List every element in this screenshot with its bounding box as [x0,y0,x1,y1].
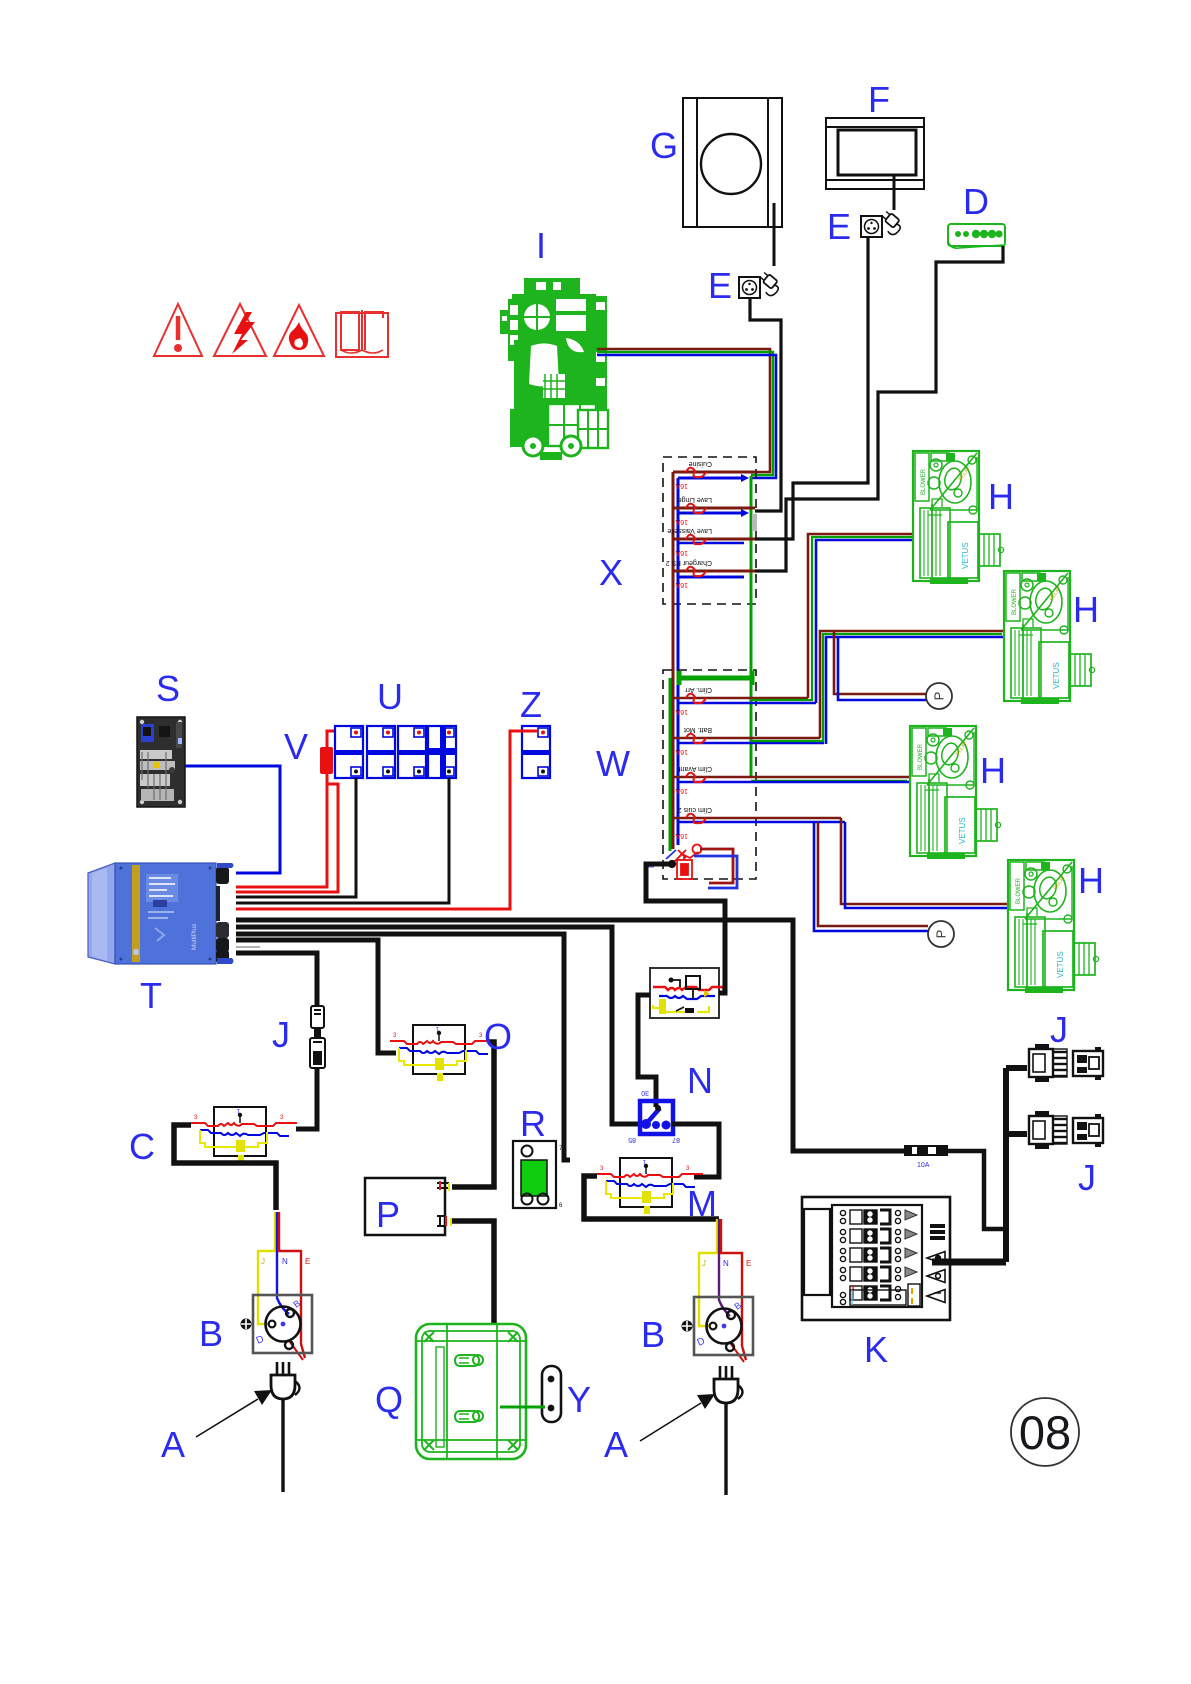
svg-text:H: H [1073,589,1099,630]
red diagonal through socket [290,1342,303,1360]
wire P bottom to battery Q [452,1221,494,1325]
T output bus black 1 [236,920,904,1151]
wire W pair1 up to H1: blue [816,540,913,703]
arrow A1 [196,1390,272,1437]
wire J connector down to C [296,1068,317,1129]
wire bundle from I: blue [597,355,776,478]
X vertical feeder blue [677,478,680,845]
battery Z [522,726,550,778]
W green bus bar [679,671,752,685]
svg-text:E: E [827,206,851,247]
svg-text:A: A [604,1424,628,1465]
svg-text:Clim Avant: Clim Avant [679,765,712,772]
branch to P2: blue [814,822,928,931]
svg-text:Q: Q [375,1379,403,1420]
svg-text:U: U [377,676,403,717]
svg-text:16A: 16A [675,518,688,525]
T output bus black 3 to R [236,934,570,1160]
svg-text:16A: 16A [675,708,688,715]
svg-text:I: I [536,225,546,266]
wires to socket B2: yellow [699,1219,717,1326]
svg-text:E: E [746,1259,751,1268]
svg-text:Lave Linge: Lave Linge [678,496,712,503]
junction box X dashed [663,457,756,604]
svg-text:S: S [156,668,180,709]
W relay output loop blue [694,856,737,888]
svg-text:J: J [1078,1157,1096,1198]
connector J right bottom [1029,1111,1103,1149]
svg-text:Z: Z [520,684,542,725]
wire socket E to X box pair2 [750,298,781,511]
wire Q to Y green [500,1406,545,1409]
svg-text:H: H [1078,860,1104,901]
LED controller D [948,224,1005,248]
stub to connector J top [1006,1065,1027,1071]
wire W pair2 up to H2: blue [826,637,1004,744]
svg-text:87: 87 [672,1136,680,1143]
wire W pair4 to H4: blue [845,822,1008,908]
fuse V [320,731,335,774]
svg-text:H: H [988,476,1014,517]
T output bus black 2 to relay N [236,927,640,1124]
wire D to X box pair4 [755,246,1003,571]
X green distribution wire [750,476,753,777]
svg-text:J: J [261,1257,265,1266]
W green left feeder [669,678,672,851]
indicator R [513,1141,563,1209]
branch to P2: dark red [818,822,928,926]
svg-text:K: K [864,1329,888,1370]
wire C left to junction [174,1125,276,1210]
wire battery U negative to T black 1 [236,778,356,897]
wire battery U4 negative to T black 2 [236,778,449,903]
svg-text:N: N [723,1259,729,1268]
wire V to inverter T red 2 [236,784,338,892]
svg-text:N: N [282,1257,288,1266]
T output bus black 5 to J inline connector [236,953,317,1006]
socket E with plug (for G) [739,271,782,298]
connector Y [542,1366,561,1422]
svg-text:C: C [129,1126,155,1167]
socket B2 [682,1297,754,1355]
fuse panel K [802,1197,950,1320]
wire W pair2 up to H2: green [751,634,1002,741]
wire W pair1 up to H1: dark red [808,534,913,698]
stub to connector J bottom [1006,1131,1027,1137]
W circuit 4 pair (Clim cuis 2) [673,806,845,839]
svg-text:J: J [272,1014,290,1055]
wire N to M [672,1124,719,1177]
svg-text:H: H [980,750,1006,791]
svg-text:A: A [161,1424,185,1465]
W circuit 1 pair (Clim Arr) [673,686,816,715]
wires junction to socket B1: yellow [258,1212,275,1324]
svg-text:P: P [376,1194,400,1235]
wire battery Z to T red [236,731,538,909]
thermostat C [191,1107,297,1163]
X circuit 3 pair (Lave Vaisselle) [667,527,755,556]
wire G to socket E [773,203,776,266]
svg-text:Batt. Mot: Batt. Mot [684,726,712,733]
warning triangle fire [274,305,324,356]
wire W pair4 to H4: dark red [841,818,1008,904]
svg-text:16A: 16A [675,549,688,556]
svg-text:D: D [963,181,989,222]
arrow A2 [640,1394,715,1441]
svg-text:Clim cuis 2: Clim cuis 2 [678,806,712,813]
svg-text:16A: 16A [675,482,688,489]
wires junction to socket B1: red [279,1212,305,1358]
wire F to socket E [893,175,896,210]
svg-text:Clim. Arr: Clim. Arr [685,686,713,693]
connector J right top [1029,1044,1103,1082]
svg-text:Lave Vaisselle: Lave Vaisselle [667,527,712,534]
wire bus to K [932,1259,1006,1266]
junction box W dashed [663,670,756,879]
red diagonal through socket B2 [731,1344,744,1362]
manual book icon [336,310,388,357]
svg-text:08: 08 [1019,1406,1071,1459]
svg-text:Y: Y [567,1379,591,1420]
wire V to inverter T red 1 [236,774,327,887]
control board S [137,717,185,807]
svg-text:G: G [650,125,678,166]
svg-text:16A: 16A [675,832,688,839]
battery bank U [335,726,363,778]
page number 08 [1011,1398,1079,1466]
wire W pair2 up to H2: dark red [820,631,1004,738]
warning triangle electric [214,304,266,356]
svg-text:16A: 16A [675,787,688,794]
thermostat M [597,1158,703,1214]
X vertical feeder dark red [672,472,675,849]
switch N [628,1089,680,1143]
svg-text:B: B [199,1313,223,1354]
W relay output loop dark red [700,849,733,883]
auxiliary battery Q [416,1324,526,1459]
fan unit H4 [1008,860,1099,993]
svg-text:V: V [284,726,308,767]
plug A1 [271,1362,300,1492]
terminal P1 [926,683,952,709]
wires junction to socket B1: blue [277,1212,289,1314]
terminal P2 [928,921,954,947]
branch to P1: dark red [834,631,926,694]
inline connector J (left) [310,1006,325,1068]
inline fuse on AC feed [904,1145,948,1169]
svg-text:MultiPlus: MultiPlus [191,923,198,950]
wires to socket B2: purple [719,1219,730,1316]
wire socket E(F) to X box pair3 [755,237,868,539]
svg-text:Cuisine: Cuisine [689,460,712,467]
svg-text:J: J [1050,1009,1068,1050]
wire O right to P top terminal [452,1042,494,1187]
wire relay to switch N [638,995,656,1107]
socket B1 [241,1295,313,1353]
appliance F microwave [826,118,924,189]
fold mark [752,514,757,531]
svg-text:16A: 16A [675,581,688,588]
T remote wire gray [236,946,260,948]
J feeder bus vertical [1003,1068,1009,1262]
svg-text:Chargeur PS 2: Chargeur PS 2 [666,559,712,566]
W circuit 3 pair (Clim Avant) [673,765,910,794]
wires to socket B2: red [721,1219,746,1360]
svg-text:J: J [702,1259,706,1268]
fan unit H2 [1004,571,1095,704]
branch to P1: blue [838,637,926,700]
fan unit H1 [913,451,1004,584]
wire S to T blue [185,766,280,873]
fan unit H3 [910,726,1001,859]
svg-text:M: M [687,1183,717,1224]
svg-text:X: X [599,552,623,593]
appliance G washing machine [683,98,782,227]
svg-text:85: 85 [628,1136,636,1143]
warning triangle exclamation [154,304,202,356]
wire W relay to relay box [646,864,725,993]
svg-text:E: E [305,1257,310,1266]
svg-text:T: T [140,975,162,1016]
X circuit 1 pair (Cuisine) [673,460,755,489]
wire bundle from I to X box: dark red [597,349,770,472]
svg-text:N: N [687,1060,713,1101]
relay box (upper, near W) [650,968,724,1018]
wire bundle from I: green [597,352,773,475]
plug A2 [714,1366,743,1495]
heater control box P [365,1178,451,1235]
svg-text:30: 30 [641,1089,649,1096]
green machine I [500,278,608,460]
socket E with plug (for F) [861,210,904,237]
svg-text:E: E [708,265,732,306]
wire M left loop to B2 [584,1176,719,1219]
svg-text:O: O [484,1016,512,1057]
svg-text:10A: 10A [917,1162,930,1169]
inverter T (blue box) [88,863,234,964]
wire fuse to J bus [948,1151,1006,1229]
svg-text:W: W [596,743,630,784]
W bottom relay symbol [666,845,702,880]
svg-text:16A: 16A [675,748,688,755]
svg-text:F: F [868,79,890,120]
X circuit 4 pair (Chargeur PS 2) [666,559,755,588]
T output bus black 4 to O [236,940,396,1053]
svg-text:B: B [641,1314,665,1355]
wire W pair1 up to H1: green [751,537,913,700]
X circuit 2 pair (Lave Linge) [673,496,755,525]
svg-text:R: R [520,1103,546,1144]
thermostat O [390,1025,496,1081]
W circuit 2 pair (Batt Mot) [673,726,824,755]
